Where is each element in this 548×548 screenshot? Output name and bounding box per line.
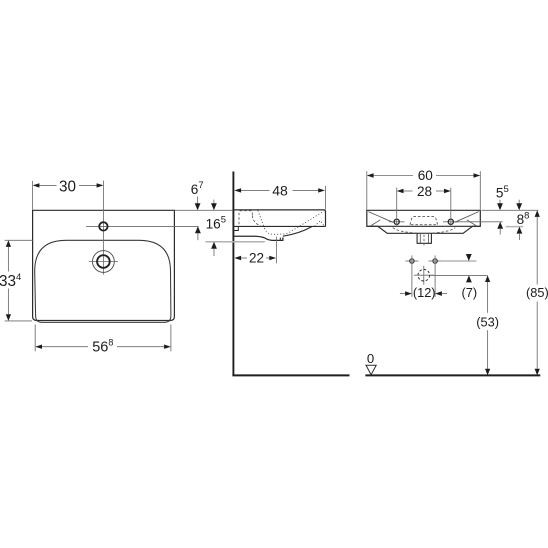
- drain outer circle: [93, 251, 115, 273]
- dim (53) line: [487, 282, 489, 313]
- dim (7) up arrow with stem: [466, 275, 472, 282]
- fixing hole level line to (7) arrow: [442, 260, 477, 262]
- dim 30 line: [39, 184, 57, 186]
- underside rising curve to front: [283, 227, 312, 237]
- trap inner wall left: [419, 234, 421, 244]
- corner fold right: [467, 220, 477, 226]
- dim 28 extension line left / tap axis: [396, 188, 398, 227]
- dim 568 extension line left: [34, 325, 36, 352]
- top edge extension line right: [482, 209, 539, 211]
- drain spigot inner tick: [279, 238, 281, 241]
- extension line from plan top edge to wall: [174, 209, 232, 211]
- dim 55 down arrow with stem: [499, 200, 501, 204]
- drain centerline horizontal: [89, 261, 118, 263]
- trap inner wall right: [428, 234, 430, 244]
- svg-text:60: 60: [418, 168, 434, 183]
- dim 60 extension line left: [366, 171, 368, 209]
- dim 334 line: [7, 247, 9, 272]
- tap level extension line right: [456, 221, 503, 223]
- inner bowl outline (plan): [35, 240, 171, 322]
- bowl bottom dashed arc: [393, 228, 455, 234]
- svg-text:(7): (7): [461, 285, 477, 300]
- deck diagonal right: [455, 212, 479, 223]
- fixing hole cross right: [429, 260, 442, 262]
- tap hole centerline vertical: [102, 181, 104, 275]
- dim 60 arrow right: [474, 173, 481, 177]
- dim (12) extension line left: [411, 255, 413, 297]
- basin outer outline (plan): [33, 210, 175, 320]
- dim 67 down arrow with stem: [197, 197, 199, 204]
- corner fold left: [370, 220, 380, 226]
- dim 334 extension line bottom: [5, 320, 32, 322]
- dim 48 line: [241, 189, 270, 191]
- dim 22 drain extension line: [275, 237, 277, 264]
- bowl interior dotted curve: [258, 211, 324, 235]
- svg-text:(85): (85): [526, 285, 548, 300]
- svg-text:30: 30: [59, 178, 76, 195]
- dim 30 arrow left: [33, 183, 40, 187]
- floor line left segment: [232, 374, 349, 376]
- dim 22 arrow left: [234, 256, 241, 260]
- dim (85) arrow up: [535, 210, 540, 217]
- waste trap: [417, 234, 431, 244]
- dim 88 down arrow with stem: [518, 200, 520, 204]
- tap hole centerline horizontal / extension to 6-7 dim: [86, 225, 199, 227]
- dim 30 extension line left: [32, 181, 34, 210]
- waste level cross: [414, 274, 434, 276]
- tap hole right circle: [448, 219, 453, 224]
- dim 67 up arrow with stem: [195, 226, 201, 233]
- dim (53) arrow up: [485, 275, 490, 282]
- inner front dotted peak: [315, 221, 325, 226]
- dim 568 extension line right: [170, 325, 172, 352]
- svg-text:28: 28: [417, 184, 432, 199]
- dim 88 gray extension line: [506, 226, 524, 228]
- rim band bottom edge full width: [367, 225, 481, 227]
- trap centerline dashed: [423, 235, 425, 247]
- svg-text:22: 22: [249, 251, 264, 266]
- dim 165 down arrow with stem: [213, 200, 215, 204]
- dim 28 extension line right / tap axis: [450, 188, 452, 227]
- floor line right segment: [365, 374, 540, 376]
- svg-text:48: 48: [272, 183, 288, 199]
- mounting step notch: [233, 226, 238, 230]
- datum 0 triangle: [366, 365, 376, 375]
- dim 334 arrow up: [6, 240, 11, 247]
- front face (side profile): [325, 211, 327, 226]
- band bottom line (side profile): [233, 225, 325, 227]
- dim 30 arrow right: [97, 183, 104, 187]
- overflow channel dashed: [239, 211, 252, 225]
- dim 165 up arrow with stem: [211, 242, 217, 249]
- dim (12) arrow right with tail: [435, 291, 442, 296]
- dim 48 arrow left: [234, 188, 241, 192]
- tap hole left tick: [389, 221, 405, 223]
- dim 334 extension line top: [5, 239, 34, 241]
- dim 60 line: [373, 175, 413, 177]
- dim 165 gray extension line at drain bottom: [206, 241, 265, 243]
- dim 22 line: [241, 257, 247, 259]
- svg-text:(53): (53): [476, 315, 499, 330]
- dim (53) arrow down: [485, 369, 490, 376]
- fixing hole cross left: [405, 260, 418, 262]
- dim 568 arrow left: [35, 345, 42, 349]
- dim 48 extension line right: [325, 186, 327, 210]
- dim 334 arrow down: [6, 314, 11, 321]
- waste level line to (53): [430, 274, 488, 276]
- dim 568 line: [42, 346, 88, 348]
- rim top line (side profile): [233, 210, 325, 212]
- dim (85) arrow down: [535, 369, 540, 376]
- dim 22 arrow right: [269, 256, 276, 260]
- overflow flare dashed: [252, 216, 260, 227]
- dim 88 up arrow with stem: [517, 227, 523, 234]
- dim 28 arrow left: [397, 189, 404, 193]
- dim (12) arrow left with tail: [400, 293, 405, 295]
- drain inner circle: [97, 255, 110, 268]
- dim (7) down arrow with stem: [466, 254, 472, 261]
- dim (85) line: [536, 217, 538, 285]
- tap hole right tick: [443, 221, 459, 223]
- tap hole left circle: [394, 219, 399, 224]
- dim 55 up arrow with stem: [497, 222, 503, 229]
- basin front outline: [367, 210, 481, 233]
- dim 28 arrow right: [444, 189, 451, 193]
- dim 60 extension line right: [479, 171, 481, 209]
- dim 28 line: [403, 190, 412, 192]
- svg-text:(12): (12): [413, 285, 436, 300]
- overflow dashed trapezoid: [410, 217, 438, 225]
- svg-text:0: 0: [367, 351, 374, 366]
- dim 60 arrow left: [367, 173, 374, 177]
- ceramic underside with drain spigot: [233, 236, 283, 240]
- dim (12) extension line right: [434, 255, 436, 297]
- wall line: [232, 172, 234, 376]
- dim 48 arrow right: [318, 188, 325, 192]
- deck diagonal left: [368, 212, 393, 223]
- dim 568 arrow right: [164, 345, 171, 349]
- tap hole circle: [99, 222, 107, 230]
